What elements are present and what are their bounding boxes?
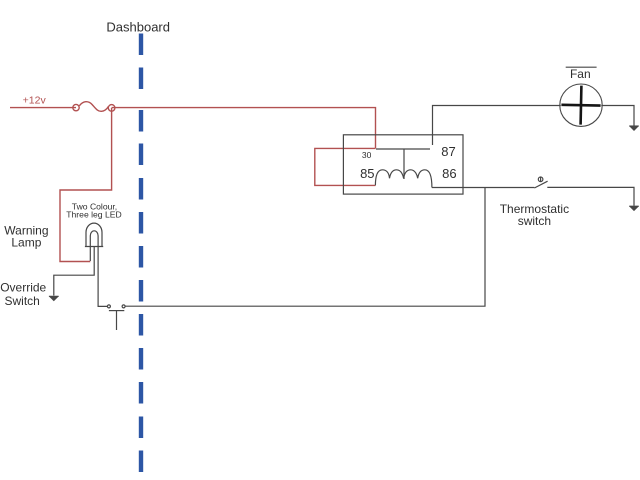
- svg-text:Fan: Fan: [570, 67, 591, 81]
- svg-text:30: 30: [362, 150, 372, 160]
- svg-text:Switch: Switch: [5, 294, 40, 308]
- svg-text:86: 86: [442, 166, 456, 181]
- svg-text:Override: Override: [0, 281, 46, 295]
- svg-text:87: 87: [441, 144, 455, 159]
- svg-text:Three leg LED: Three leg LED: [66, 209, 121, 219]
- svg-text:Lamp: Lamp: [11, 235, 41, 249]
- svg-text:switch: switch: [518, 214, 551, 228]
- svg-text:+12v: +12v: [23, 94, 47, 106]
- svg-text:Dashboard: Dashboard: [106, 19, 170, 34]
- svg-text:85: 85: [360, 166, 374, 181]
